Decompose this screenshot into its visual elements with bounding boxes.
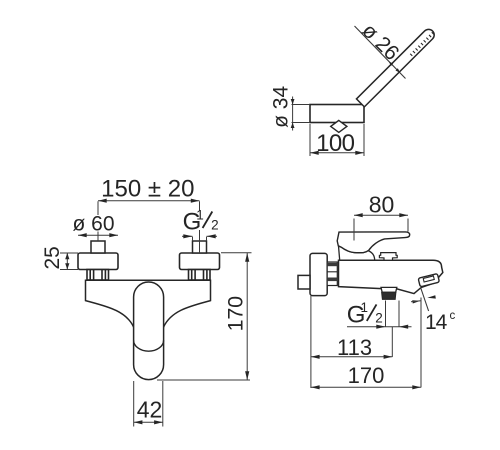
arrow 150 left bbox=[98, 199, 107, 203]
svg-text:ø 60: ø 60 bbox=[72, 213, 114, 236]
shower outlet nut bbox=[382, 292, 396, 299]
svg-text:c: c bbox=[450, 310, 456, 322]
ext lines 100 bbox=[309, 124, 311, 156]
body top bar with taper bbox=[86, 280, 211, 327]
14deg arrow right bbox=[427, 295, 436, 298]
arrow 113 right bbox=[384, 355, 393, 359]
left flange bbox=[78, 253, 118, 270]
dim line 170 bbox=[246, 253, 248, 380]
dim line ø34 bbox=[292, 97, 294, 131]
dim line 80 bbox=[354, 214, 408, 216]
ext lines ø34 bbox=[292, 104, 311, 106]
cartridge dome bbox=[339, 246, 375, 260]
ext lines G1/2 side bbox=[385, 301, 387, 328]
aerator box bbox=[418, 274, 439, 287]
arrow 42 right bbox=[154, 420, 163, 424]
ext line 170 bottom bbox=[157, 379, 250, 381]
svg-text:25: 25 bbox=[41, 246, 64, 269]
svg-text:2: 2 bbox=[211, 217, 219, 232]
wall ext line bbox=[310, 296, 312, 388]
svg-text:150 ± 20: 150 ± 20 bbox=[101, 175, 194, 202]
dim line 113 bbox=[311, 356, 392, 358]
dim line 170 side bbox=[311, 386, 421, 388]
ext lines 42 bbox=[133, 381, 135, 427]
arrow 170 bottom bbox=[245, 371, 249, 380]
svg-text:ø 34: ø 34 bbox=[270, 86, 293, 128]
arrow 150 right bbox=[191, 199, 200, 203]
right flange bbox=[180, 253, 220, 270]
svg-text:170: 170 bbox=[348, 363, 385, 388]
arrow 170s right bbox=[412, 385, 421, 389]
arrow ø26 upper bbox=[389, 61, 394, 66]
arrow ø34 bottom bbox=[291, 123, 295, 129]
svg-text:113: 113 bbox=[337, 335, 372, 360]
wall flange side bbox=[310, 253, 327, 295]
arrow 100 right bbox=[355, 151, 364, 155]
spray tick marks bbox=[410, 32, 434, 56]
connection nut side bbox=[327, 262, 337, 286]
14deg vertical ref line bbox=[420, 298, 422, 388]
center line right bbox=[199, 201, 201, 253]
ext ticks G1/2 front bbox=[192, 237, 194, 241]
label G1/2 side bbox=[347, 300, 383, 328]
dim line 25 bbox=[66, 253, 68, 270]
holder diamond detail bbox=[331, 120, 347, 132]
shower handle bar bbox=[356, 27, 436, 107]
right connector bbox=[193, 241, 207, 253]
svg-text:42: 42 bbox=[137, 397, 163, 423]
14deg arrow left bbox=[412, 300, 420, 303]
dim line ø60 bbox=[78, 234, 118, 236]
arrow 80 left bbox=[354, 213, 363, 217]
svg-text:170: 170 bbox=[224, 296, 248, 332]
dim arrows G1/2 front bbox=[182, 235, 193, 237]
arrow ø34 top bbox=[291, 99, 295, 105]
left nut bbox=[87, 270, 109, 281]
wall pipe stub bbox=[298, 275, 310, 289]
label ø60 bbox=[74, 215, 114, 232]
svg-text:100: 100 bbox=[316, 130, 354, 157]
center line shower stub bbox=[391, 327, 393, 357]
dim line ø26 bbox=[355, 26, 406, 79]
svg-text:2: 2 bbox=[375, 310, 383, 325]
dim line G1/2 side bbox=[347, 326, 412, 328]
ext line 170 top bbox=[221, 252, 252, 254]
svg-text:80: 80 bbox=[369, 191, 395, 217]
dim line 100 bbox=[310, 152, 364, 154]
dim line 42 bbox=[134, 421, 163, 423]
handle capsule bbox=[134, 282, 164, 380]
left connector bbox=[91, 241, 105, 253]
body slab with spout bbox=[339, 260, 443, 293]
lever handle side bbox=[337, 232, 410, 253]
dim line 150±20 bbox=[98, 200, 200, 202]
svg-text:1: 1 bbox=[196, 207, 204, 222]
ext lines 25 bbox=[60, 252, 78, 254]
svg-text:14: 14 bbox=[425, 311, 448, 334]
arrow 100 left bbox=[310, 151, 319, 155]
svg-text:1: 1 bbox=[361, 300, 369, 315]
arrow ø60 left bbox=[78, 233, 87, 237]
shower holder body bbox=[310, 105, 364, 123]
arrow 25 top bbox=[65, 253, 69, 259]
center line left bbox=[97, 201, 99, 241]
ext line 80 left bbox=[353, 219, 355, 241]
arrow 170s left bbox=[311, 385, 320, 389]
arrow 113 left bbox=[311, 355, 320, 359]
ext line 80 right bbox=[407, 219, 409, 232]
label G1/2 front bbox=[183, 207, 222, 235]
shower outlet stub bbox=[381, 287, 397, 292]
arrow ø60 right bbox=[109, 233, 118, 237]
14deg tilted line bbox=[421, 288, 429, 312]
arrow 170 top bbox=[245, 253, 249, 262]
arrow 80 right bbox=[399, 213, 408, 217]
arrow 25 bottom bbox=[65, 263, 69, 269]
diverter knob bbox=[379, 253, 397, 261]
inner sleeve arc bbox=[134, 340, 164, 351]
arrow 42 left bbox=[134, 420, 143, 424]
right nut bbox=[189, 270, 211, 281]
arrow ø26 lower bbox=[396, 68, 401, 73]
